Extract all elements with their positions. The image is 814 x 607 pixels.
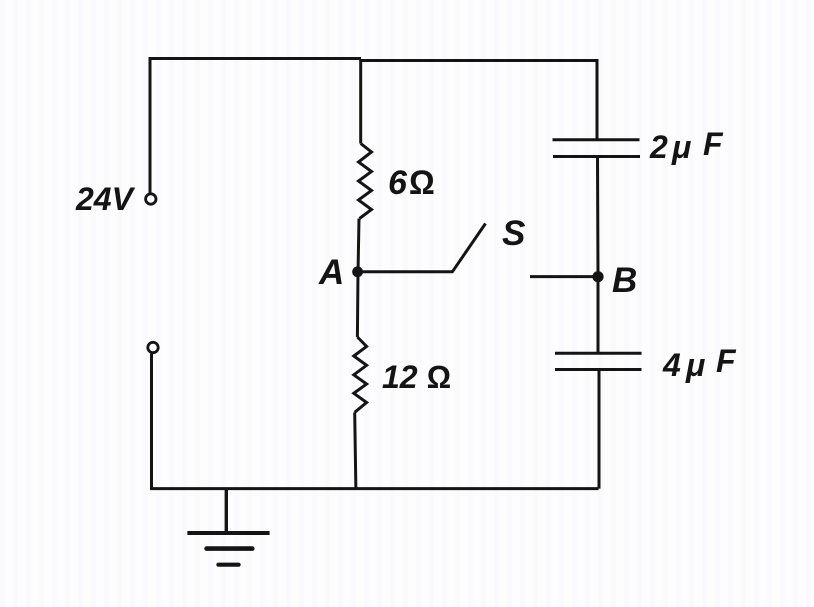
- node A junction dot: [352, 266, 363, 277]
- wire middle branch node A to 12ohm: [356, 271, 360, 337]
- wire top rail right segment: [360, 59, 599, 62]
- wire switch throw to node B: [530, 275, 598, 278]
- wire left branch upper vertical: [149, 57, 152, 193]
- svg-text:2μF: 2μF: [649, 126, 724, 165]
- capacitor C 2uF plates: [553, 140, 641, 157]
- wire right branch bottom: [598, 370, 601, 489]
- capacitor C 4uF plates: [555, 353, 642, 369]
- wire right branch 2uF to node B: [596, 157, 600, 278]
- svg-text:4μF: 4μF: [662, 343, 737, 383]
- wire middle branch 6ohm to node A: [358, 219, 359, 274]
- wire middle branch top: [359, 59, 362, 144]
- ground symbol: [187, 489, 269, 565]
- resistor R 6ohm zigzag: [359, 144, 372, 219]
- wire middle branch bottom: [355, 412, 356, 490]
- wire right branch node B to 4uF: [597, 276, 600, 354]
- svg-text:12 Ω: 12 Ω: [382, 359, 451, 395]
- wire node A to switch pole: [358, 270, 453, 273]
- svg-text:B: B: [612, 261, 637, 300]
- wire left branch lower vertical: [150, 354, 153, 490]
- switch S blade (open): [452, 224, 486, 273]
- node B junction dot: [592, 271, 603, 282]
- wire right branch top: [596, 59, 599, 140]
- svg-text:A: A: [318, 253, 344, 292]
- terminal 24V upper (open circle): [146, 194, 156, 204]
- terminal lower (open circle): [148, 342, 158, 352]
- wire top rail left segment: [149, 57, 362, 60]
- svg-text:S: S: [502, 214, 525, 253]
- svg-text:24V: 24V: [75, 181, 136, 217]
- resistor R 12ohm zigzag: [354, 337, 367, 412]
- wire bottom rail: [150, 487, 599, 490]
- svg-text:6Ω: 6Ω: [388, 164, 435, 202]
